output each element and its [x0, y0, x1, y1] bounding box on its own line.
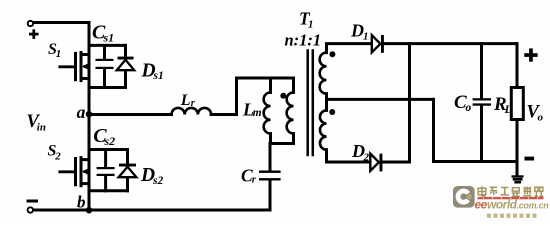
svg-text:2: 2 — [54, 151, 61, 163]
svg-text:s1: s1 — [103, 31, 115, 45]
svg-text:world: world — [487, 197, 518, 211]
svg-text:s2: s2 — [152, 175, 163, 187]
svg-text:n:1:1: n:1:1 — [285, 30, 322, 49]
svg-text:r: r — [252, 175, 257, 186]
svg-text:s1: s1 — [153, 70, 164, 82]
svg-text:1: 1 — [56, 48, 62, 60]
svg-text:1: 1 — [363, 31, 369, 43]
svg-text:a: a — [77, 102, 86, 122]
svg-text:L: L — [180, 92, 191, 109]
svg-text:s2: s2 — [104, 134, 116, 148]
svg-text:o: o — [466, 102, 472, 114]
svg-text:.com.cn: .com.cn — [517, 200, 550, 210]
svg-text:ee: ee — [475, 197, 488, 211]
svg-text:o: o — [538, 112, 544, 124]
svg-text:m: m — [253, 107, 262, 119]
svg-text:in: in — [37, 122, 46, 134]
svg-text:D: D — [350, 21, 364, 41]
svg-text:b: b — [77, 192, 86, 211]
svg-text:r: r — [191, 98, 195, 109]
svg-text:L: L — [504, 102, 512, 116]
svg-text:2: 2 — [363, 151, 370, 163]
svg-text:1: 1 — [308, 19, 314, 31]
